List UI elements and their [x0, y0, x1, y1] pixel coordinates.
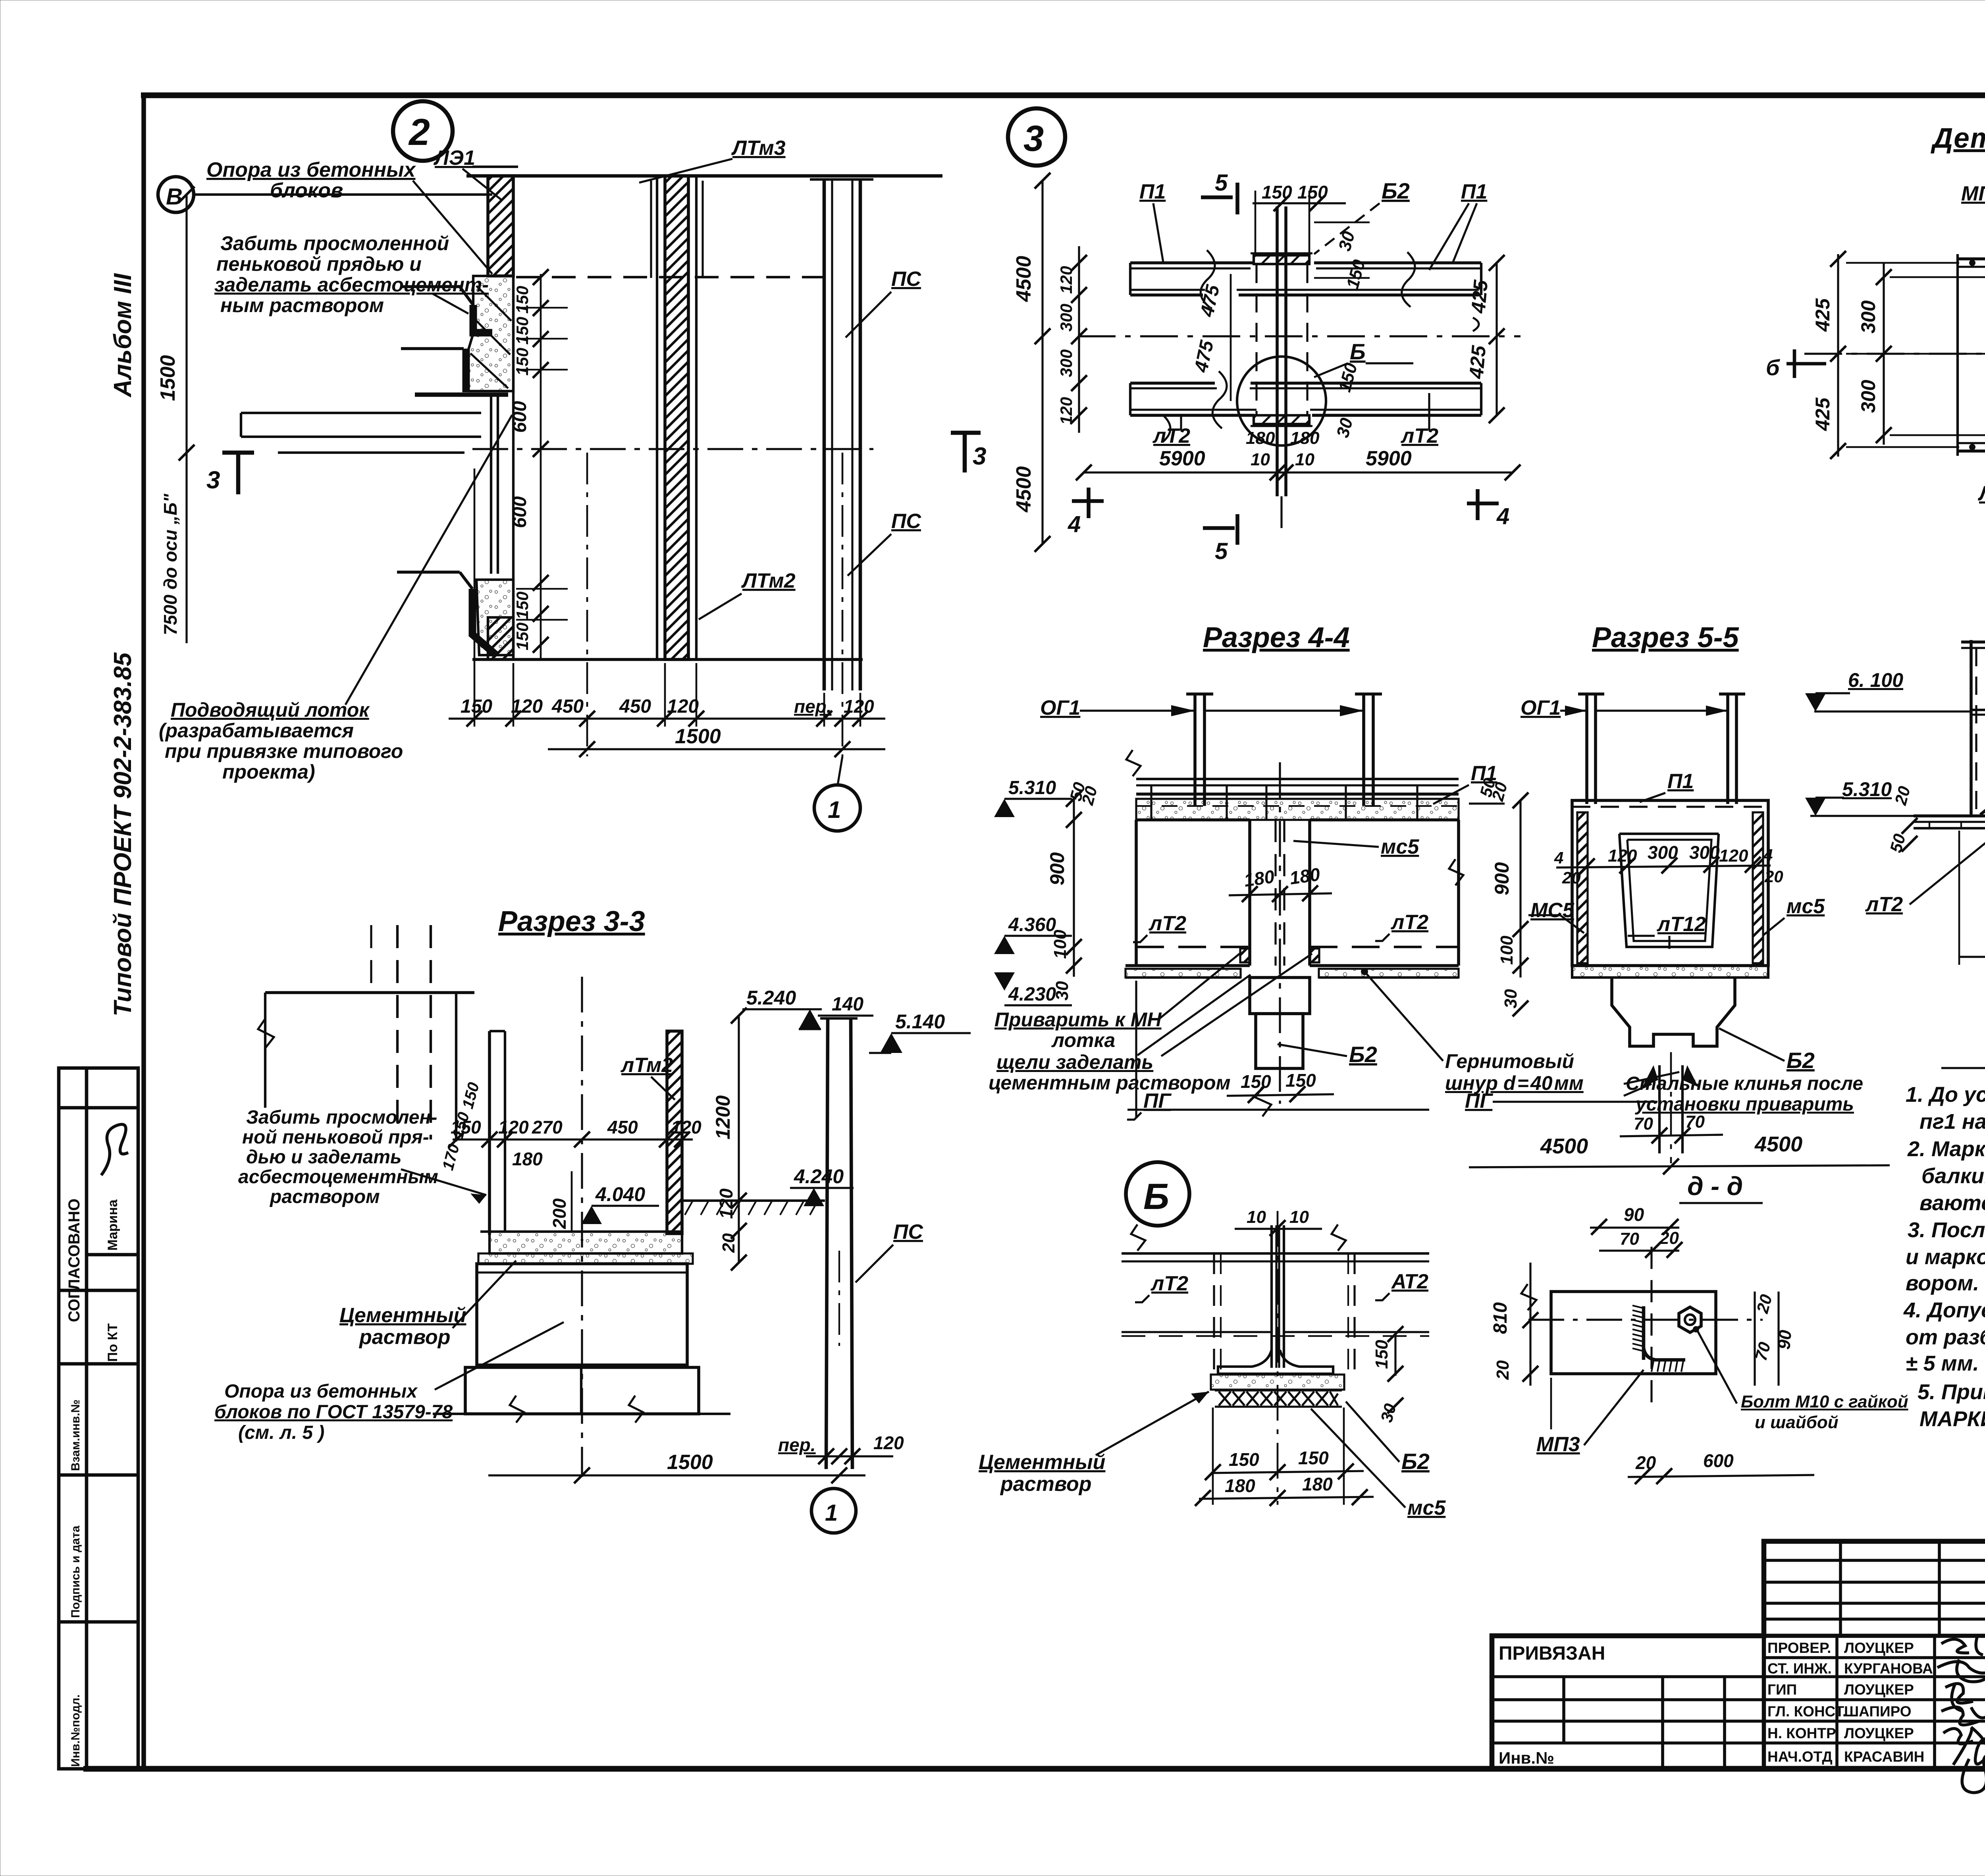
center dash-dot of beam — [1279, 762, 1281, 1104]
svg-text:Н. КОНТР: Н. КОНТР — [1767, 1725, 1836, 1741]
right post — [1362, 694, 1365, 806]
frame top border — [141, 93, 1985, 98]
middle hatched wall (ЛТм3/ЛТм2 pipe) — [665, 176, 688, 659]
center axis dash-dot — [581, 977, 583, 1477]
bottom slab — [1125, 964, 1250, 967]
svg-text:Цементный: Цементный — [339, 1304, 466, 1327]
section markers 4 bottom — [1072, 499, 1104, 503]
svg-text:50: 50 — [1886, 832, 1909, 854]
svg-text:блоков по ГОСТ 13579-78: блоков по ГОСТ 13579-78 — [214, 1402, 453, 1423]
frame left border — [141, 93, 146, 1771]
left wall — [1970, 640, 1973, 816]
left vertical dim 4500/4500 — [1041, 181, 1043, 544]
svg-text:10: 10 — [1289, 1207, 1309, 1227]
svg-text:120: 120 — [511, 696, 543, 717]
svg-text:раствор: раствор — [358, 1326, 450, 1349]
svg-text:цементным раствором: цементным раствором — [989, 1072, 1231, 1094]
svg-text:5.310: 5.310 — [1842, 778, 1892, 800]
svg-text:120: 120 — [498, 1117, 529, 1138]
section mark 3 left — [236, 453, 241, 494]
svg-text:300: 300 — [1857, 380, 1879, 413]
svg-text:1200: 1200 — [712, 1095, 734, 1139]
svg-text:Б: Б — [1143, 1176, 1169, 1217]
svg-text:Марина: Марина — [105, 1199, 120, 1251]
svg-text:120: 120 — [844, 696, 874, 717]
svg-text:МС5: МС5 — [1530, 899, 1575, 922]
svg-text:425: 425 — [1465, 344, 1490, 380]
bottom slab — [1914, 814, 1985, 817]
I-beam top flange — [1254, 255, 1309, 264]
svg-text:ЛОУЦКЕР: ЛОУЦКЕР — [1844, 1681, 1914, 1698]
svg-text:4.230: 4.230 — [1008, 984, 1056, 1005]
svg-text:НАЧ.ОТД: НАЧ.ОТД — [1767, 1749, 1833, 1765]
svg-text:СОГЛАСОВАНО: СОГЛАСОВАНО — [66, 1199, 83, 1322]
seal lower speckled zone — [476, 580, 513, 655]
bottom band — [1572, 966, 1768, 978]
svg-text:600: 600 — [509, 496, 530, 528]
sidebar table box — [59, 1068, 138, 1769]
svg-text:150: 150 — [1241, 1071, 1271, 1092]
top rail band — [1136, 778, 1459, 780]
embed plates — [1240, 949, 1250, 962]
svg-text:20: 20 — [1764, 867, 1783, 886]
axis line from B — [194, 193, 492, 196]
svg-text:5.310: 5.310 — [1008, 777, 1056, 798]
svg-text:10: 10 — [1251, 450, 1270, 469]
svg-text:200: 200 — [549, 1198, 570, 1229]
svg-text:300: 300 — [1857, 300, 1879, 334]
svg-text:Деталь установки площадки МП3: Деталь установки площадки МП3 — [1930, 123, 1985, 154]
svg-text:20: 20 — [1635, 1452, 1656, 1473]
svg-text:900: 900 — [1491, 862, 1513, 895]
svg-text:МП3: МП3 — [1536, 1433, 1580, 1456]
svg-text:4500: 4500 — [1012, 256, 1035, 302]
bolt axis dashed — [1650, 1247, 1652, 1413]
svg-text:± 5 мм.: ± 5 мм. — [1906, 1352, 1979, 1375]
detail circle Б — [1237, 357, 1326, 445]
circle Б — [1126, 1162, 1189, 1226]
svg-text:мс5: мс5 — [1786, 895, 1825, 918]
mid rail level line — [1814, 710, 1971, 712]
center horizontal dash-dot — [1078, 335, 1521, 337]
dim row 150 120 270 450 120 over trough — [453, 1138, 693, 1140]
svg-text:Болт М10 с гайкой: Болт М10 с гайкой — [1741, 1392, 1908, 1411]
wedges and stem — [1642, 1065, 1658, 1087]
outer border — [1492, 1541, 1985, 1769]
svg-text:ШАПИРО: ШАПИРО — [1844, 1703, 1912, 1720]
svg-text:ЛТм2: ЛТм2 — [741, 569, 796, 592]
svg-text:Б2: Б2 — [1349, 1042, 1377, 1067]
svg-text:лТ2: лТ2 — [1400, 424, 1438, 447]
svg-text:1: 1 — [828, 796, 841, 823]
svg-text:20: 20 — [1493, 1360, 1513, 1380]
svg-text:Гернитовый: Гернитовый — [1445, 1050, 1574, 1072]
svg-text:900: 900 — [1046, 852, 1068, 885]
bedding layer цементный раствор — [478, 1253, 693, 1264]
svg-text:6. 100: 6. 100 — [1848, 669, 1903, 691]
svg-text:600: 600 — [509, 401, 530, 433]
svg-text:20: 20 — [1562, 868, 1581, 887]
svg-text:90: 90 — [1774, 1329, 1795, 1350]
svg-text:Б2: Б2 — [1382, 178, 1410, 203]
svg-text:Взам.инв.№: Взам.инв.№ — [69, 1400, 82, 1471]
П1 slab band hatched — [1136, 792, 1459, 796]
dashed hidden line upper — [516, 276, 826, 278]
svg-text:Забить просмоленной: Забить просмоленной — [220, 232, 449, 255]
svg-text:4: 4 — [1554, 848, 1563, 867]
svg-text:300: 300 — [1057, 304, 1075, 332]
svg-text:ПРИВЯЗАН: ПРИВЯЗАН — [1499, 1643, 1605, 1664]
svg-text:В: В — [166, 184, 183, 210]
svg-text:30: 30 — [1501, 989, 1521, 1008]
right post — [1726, 694, 1729, 804]
axis circle 1 — [811, 1488, 856, 1533]
svg-text:лТ2: лТ2 — [1865, 893, 1903, 916]
svg-text:Цементный: Цементный — [979, 1451, 1105, 1474]
svg-text:10: 10 — [1247, 1207, 1266, 1227]
svg-text:лотка: лотка — [1051, 1029, 1115, 1051]
svg-text:Б2: Б2 — [1786, 1048, 1815, 1073]
svg-text:120: 120 — [1057, 397, 1075, 425]
svg-text:1: 1 — [825, 1500, 838, 1526]
svg-text:ОГ1: ОГ1 — [1521, 696, 1561, 719]
lower extension and dims — [1958, 831, 1960, 965]
beam lower block — [1250, 978, 1310, 1014]
svg-text:СТ. ИНЖ.: СТ. ИНЖ. — [1767, 1660, 1832, 1677]
break marks on bottom — [510, 1396, 524, 1423]
svg-text:ПРОВЕР.: ПРОВЕР. — [1767, 1640, 1831, 1656]
svg-text:1500: 1500 — [156, 355, 179, 401]
svg-text:20: 20 — [1891, 784, 1914, 807]
svg-text:4. Допускаемые отклонения п: 4. Допускаемые отклонения при монтаже ло… — [1903, 1298, 1985, 1322]
trough right hatched wall — [667, 1031, 682, 1234]
svg-text:КРАСАВИН: КРАСАВИН — [1844, 1749, 1924, 1765]
svg-text:4: 4 — [1763, 846, 1773, 864]
vertical dim 7500 до оси Б — [185, 453, 187, 643]
svg-text:1500: 1500 — [667, 1451, 713, 1474]
hidden dashed verticals — [1255, 264, 1257, 415]
panel body — [1136, 818, 1250, 821]
svg-text:проекта): проекта) — [222, 761, 315, 783]
svg-text:4500: 4500 — [1012, 466, 1035, 513]
svg-text:пеньковой прядью и: пеньковой прядью и — [216, 253, 422, 275]
I-beam bottom flange — [1254, 415, 1309, 424]
svg-text:120: 120 — [1608, 846, 1637, 866]
svg-text:П1: П1 — [1461, 180, 1487, 203]
svg-text:475: 475 — [1191, 338, 1218, 375]
svg-text:мс5: мс5 — [1407, 1496, 1446, 1519]
main rows — [1492, 1636, 1985, 1769]
dim extension verticals — [474, 453, 860, 756]
svg-text:д - д: д - д — [1687, 1171, 1743, 1201]
svg-text:30: 30 — [1052, 981, 1072, 1001]
svg-text:30: 30 — [1333, 416, 1357, 440]
svg-text:450: 450 — [551, 696, 584, 717]
svg-text:3. После установки лотков: 3. После установки лотков пазухи между н… — [1908, 1218, 1985, 1242]
svg-text:Забить просмолен-: Забить просмолен- — [246, 1107, 437, 1128]
svg-text:ЛОУЦКЕР: ЛОУЦКЕР — [1844, 1725, 1914, 1741]
svg-text:Разрез 4-4: Разрез 4-4 — [1203, 622, 1350, 654]
svg-text:150: 150 — [513, 348, 532, 376]
svg-text:140: 140 — [832, 994, 863, 1015]
svg-text:180: 180 — [1225, 1475, 1255, 1496]
svg-text:150: 150 — [513, 317, 532, 345]
svg-text:лТм2: лТм2 — [620, 1054, 673, 1077]
box outer — [1572, 800, 1768, 966]
top rails — [1122, 1252, 1429, 1255]
bottom datum line — [1127, 1109, 1429, 1111]
trough inner bottom slab — [490, 1232, 682, 1253]
secondary dim 120 300 300 120 — [1078, 246, 1080, 433]
signatures squiggles — [1937, 1637, 1985, 1793]
beam Б2 verticals — [1248, 820, 1251, 966]
node circle 3 — [1008, 108, 1065, 166]
svg-text:450: 450 — [619, 696, 651, 717]
svg-text:180: 180 — [1246, 428, 1275, 448]
svg-text:Инв.№: Инв.№ — [1499, 1749, 1554, 1767]
upper ledge and elbow — [401, 285, 460, 288]
left post — [1193, 694, 1197, 806]
wavy break lines in bands — [1201, 250, 1215, 308]
dim 1200 right — [738, 1016, 740, 1263]
svg-text:Типовой ПРОЕКТ 902-2-383.85: Типовой ПРОЕКТ 902-2-383.85 — [109, 652, 137, 1016]
svg-text:425: 425 — [1812, 397, 1834, 431]
seal upper (сальник) speckled zone — [468, 276, 513, 391]
svg-text:3: 3 — [1023, 118, 1044, 159]
svg-text:20: 20 — [1659, 1228, 1679, 1248]
svg-text:ЛТм3: ЛТм3 — [731, 137, 786, 160]
sidebar signature squiggle — [101, 1124, 128, 1175]
band lower lines — [1122, 1331, 1272, 1333]
svg-text:заделать асбестоцемент-: заделать асбестоцемент- — [214, 274, 489, 296]
svg-text:4.360: 4.360 — [1008, 914, 1056, 935]
svg-text:5.240: 5.240 — [746, 987, 796, 1009]
dashed panel verticals — [1213, 1253, 1215, 1376]
frame bottom border — [83, 1766, 1985, 1772]
svg-text:1. До установки лотков на: 1. До установки лотков на перегородочные… — [1906, 1083, 1985, 1107]
svg-text:120: 120 — [667, 696, 699, 717]
dim row 150 120 450 450 120 — [449, 717, 885, 719]
plate square — [1551, 1292, 1716, 1374]
svg-text:2. Марки МС5 привариваются: 2. Марки МС5 привариваются к закладным д… — [1907, 1137, 1985, 1161]
left hatched wall — [488, 176, 513, 276]
svg-text:425: 425 — [1812, 298, 1834, 332]
inner trough ЛТ12 — [1619, 833, 1719, 835]
svg-text:и шайбой: и шайбой — [1755, 1413, 1839, 1432]
svg-text:150: 150 — [513, 623, 532, 650]
bolt hexagon — [1679, 1307, 1701, 1332]
svg-text:4: 4 — [1068, 511, 1081, 537]
foundation block 2 — [465, 1367, 699, 1414]
svg-text:лТ2: лТ2 — [1390, 911, 1428, 934]
svg-text:300: 300 — [1057, 349, 1075, 377]
svg-text:150: 150 — [459, 1080, 483, 1111]
section mark 3 right — [963, 433, 967, 472]
svg-text:Подпись и дата: Подпись и дата — [69, 1525, 82, 1618]
dim 1500 — [548, 748, 885, 750]
svg-text:ваются к марке МС 5.: ваются к марке МС 5. — [1919, 1191, 1985, 1215]
svg-text:ной пеньковой пря-: ной пеньковой пря- — [242, 1127, 429, 1148]
top break marks — [1126, 750, 1141, 776]
svg-text:дью и заделать: дью и заделать — [246, 1147, 402, 1168]
svg-text:(см. л. 5 ): (см. л. 5 ) — [238, 1422, 324, 1443]
svg-text:150: 150 — [1372, 1340, 1391, 1369]
svg-text:1500: 1500 — [675, 725, 721, 748]
svg-text:раствор: раствор — [1000, 1473, 1091, 1496]
center dash-dot axis — [472, 448, 873, 450]
svg-text:Разрез 5-5: Разрез 5-5 — [1592, 622, 1739, 654]
svg-text:180: 180 — [1302, 1474, 1333, 1494]
svg-text:ПС: ПС — [891, 510, 921, 533]
thin pipe middle part — [490, 395, 492, 574]
svg-text:425: 425 — [1467, 279, 1492, 314]
svg-text:150: 150 — [461, 696, 492, 717]
svg-text:70: 70 — [1620, 1229, 1639, 1249]
svg-text:пг1 наклеивается гернитовый: пг1 наклеивается гернитовый шнур d = 40 … — [1919, 1110, 1985, 1134]
main top rail — [1961, 640, 1985, 644]
svg-text:150: 150 — [1285, 1070, 1316, 1091]
svg-text:ГИП: ГИП — [1767, 1681, 1797, 1698]
svg-text:150: 150 — [1229, 1449, 1259, 1470]
svg-text:Б2: Б2 — [1401, 1449, 1430, 1474]
svg-text:блоков: блоков — [270, 179, 343, 202]
svg-text:170: 170 — [439, 1142, 463, 1172]
svg-text:270: 270 — [532, 1117, 563, 1138]
svg-text:АТ2: АТ2 — [1391, 1270, 1428, 1293]
svg-text:150: 150 — [1298, 1448, 1329, 1468]
svg-text:балки. Лотки через закладные: балки. Лотки через закладные детали прив… — [1921, 1164, 1985, 1188]
svg-text:70: 70 — [1634, 1114, 1653, 1134]
svg-text:лТ2: лТ2 — [1148, 912, 1186, 935]
band end verticals — [1129, 263, 1131, 295]
svg-text:100: 100 — [1050, 929, 1070, 959]
vertical dim chain 150/600 left of middle wall — [540, 274, 542, 659]
svg-text:Подводящий лоток: Подводящий лоток — [171, 699, 370, 721]
svg-text:120: 120 — [873, 1433, 904, 1453]
svg-text:Опора из бетонных: Опора из бетонных — [206, 158, 416, 181]
center axis — [1277, 1211, 1279, 1505]
second ledge and elbow — [401, 347, 464, 350]
svg-text:120: 120 — [671, 1117, 701, 1138]
left post — [1585, 694, 1588, 804]
svg-text:150: 150 — [513, 286, 532, 314]
svg-text:4500: 4500 — [1540, 1134, 1588, 1158]
svg-text:Л2: Л2 — [1977, 482, 1985, 505]
xxx hatch band — [1219, 1392, 1338, 1406]
svg-text:По КТ: По КТ — [105, 1323, 120, 1362]
beam web verticals — [1270, 1225, 1273, 1368]
svg-text:вором.: вором. — [1906, 1271, 1979, 1295]
svg-text:установки приварить: установки приварить — [1635, 1094, 1854, 1115]
svg-text:ПС: ПС — [893, 1220, 923, 1244]
svg-text:мс5: мс5 — [1381, 835, 1419, 858]
vertical dim 1500 left — [185, 195, 187, 453]
svg-text:5: 5 — [1215, 170, 1228, 196]
axis marker B circle — [158, 177, 194, 212]
pedestal — [1612, 978, 1735, 1046]
right pipe ПС — [823, 179, 826, 690]
svg-text:ГЛ. КОНСТ.: ГЛ. КОНСТ. — [1767, 1703, 1846, 1720]
svg-text:асбестоцементным: асбестоцементным — [238, 1166, 438, 1188]
top cap line — [466, 174, 942, 178]
svg-text:и маркой МС 5 заполняются: и маркой МС 5 заполняются цементным раст… — [1906, 1245, 1985, 1269]
svg-text:П1: П1 — [1667, 770, 1694, 793]
svg-text:180: 180 — [1243, 866, 1276, 891]
svg-text:ОГ1: ОГ1 — [1040, 696, 1080, 719]
svg-text:5900: 5900 — [1366, 447, 1412, 470]
svg-text:4: 4 — [1496, 503, 1509, 529]
svg-text:810: 810 — [1490, 1302, 1511, 1334]
svg-text:20: 20 — [1753, 1292, 1776, 1315]
svg-text:Б: Б — [1350, 339, 1366, 364]
rail uprights — [1151, 785, 1417, 820]
svg-text:5: 5 — [1215, 538, 1228, 564]
svg-text:180: 180 — [1290, 428, 1320, 448]
svg-text:при привязке типового: при привязке типового — [165, 740, 403, 762]
подводящий лоток profile — [241, 412, 481, 414]
5.310-like small marks left — [1469, 802, 1505, 804]
corner bolts — [1969, 260, 1975, 266]
trough ЛТм2: left thin wall — [488, 1031, 491, 1235]
svg-text:ЛЭ1: ЛЭ1 — [433, 147, 475, 170]
bedding speckle band — [1211, 1375, 1344, 1390]
panel hidden bottom dashed — [1136, 946, 1250, 948]
svg-text:ЛОУЦКЕР: ЛОУЦКЕР — [1844, 1640, 1914, 1656]
svg-text:450: 450 — [607, 1117, 638, 1138]
upper wall above trough — [265, 991, 474, 994]
top band walls — [1130, 263, 1481, 295]
svg-text:лТ12: лТ12 — [1656, 913, 1706, 936]
svg-text:150: 150 — [513, 592, 532, 619]
outer bars top/bottom — [1958, 257, 1985, 260]
svg-text:30: 30 — [1335, 229, 1359, 253]
T flange — [1218, 1350, 1333, 1374]
svg-text:раствором: раствором — [269, 1186, 380, 1207]
node circle 2 — [393, 101, 453, 161]
svg-text:КУРГАНОВА: КУРГАНОВА — [1844, 1660, 1933, 1677]
svg-text:лТ2: лТ2 — [1152, 424, 1190, 447]
svg-text:20: 20 — [719, 1233, 738, 1253]
svg-text:4.240: 4.240 — [794, 1165, 844, 1188]
svg-text:5. Привязку площадки МП3: 5. Привязку площадки МП3 см . на чертежа… — [1918, 1380, 1985, 1404]
svg-text:б: б — [1766, 355, 1780, 380]
svg-text:пер.: пер. — [778, 1434, 816, 1455]
svg-text:180: 180 — [1288, 864, 1322, 888]
lower ledge and elbow — [397, 571, 460, 574]
svg-text:90: 90 — [1624, 1204, 1644, 1225]
svg-text:от разбивочной оси не долж: от разбивочной оси не должны превышать — [1906, 1325, 1985, 1349]
left vertical dims 425 300 300 425 — [1837, 254, 1839, 457]
angle bracket vertical leg with comb hatch — [1642, 1306, 1646, 1360]
diagonal braces Л2 — [1980, 721, 1985, 815]
labels column — [1499, 1640, 1933, 1767]
svg-text:5900: 5900 — [1159, 447, 1205, 470]
svg-text:4500: 4500 — [1754, 1132, 1802, 1156]
svg-text:120: 120 — [716, 1188, 736, 1219]
svg-text:120: 120 — [1719, 846, 1748, 866]
axis circle 1 — [814, 785, 860, 831]
svg-text:120: 120 — [1057, 266, 1075, 294]
dim 1500 bottom — [488, 1474, 865, 1476]
svg-text:100: 100 — [1497, 935, 1517, 965]
ground line right with hatch — [682, 1199, 825, 1202]
lower hatched wall piece — [488, 617, 513, 659]
svg-text:Альбом III: Альбом III — [109, 273, 137, 398]
svg-text:3: 3 — [973, 443, 986, 470]
svg-text:(разрабатывается: (разрабатывается — [159, 719, 354, 742]
svg-text:10: 10 — [1295, 450, 1314, 469]
svg-text:7500 до оси „Б": 7500 до оси „Б" — [160, 493, 181, 635]
